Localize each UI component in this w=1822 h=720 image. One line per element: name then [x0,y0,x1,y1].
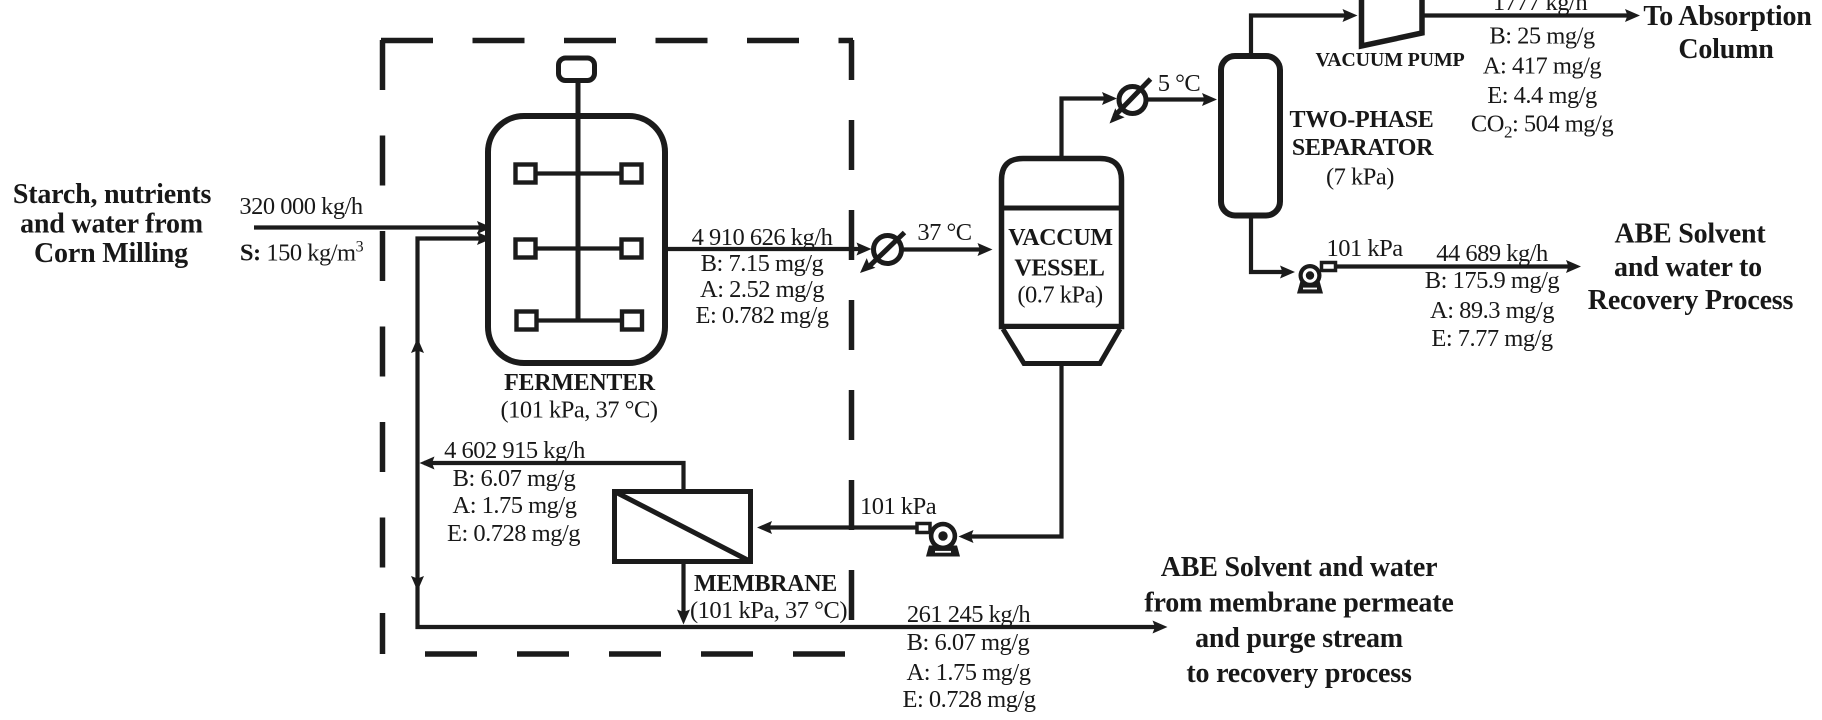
svg-text:4 602 915 kg/h: 4 602 915 kg/h [444,437,585,464]
svg-text:E: 0.728 mg/g: E: 0.728 mg/g [447,520,580,547]
svg-text:and purge stream: and purge stream [1195,623,1403,654]
svg-text:101 kPa: 101 kPa [1326,235,1403,262]
svg-text:(0.7 kPa): (0.7 kPa) [1017,282,1103,309]
svg-text:ABE Solvent and water: ABE Solvent and water [1161,552,1438,583]
svg-text:FERMENTER: FERMENTER [504,370,656,396]
svg-text:B: 6.07 mg/g: B: 6.07 mg/g [453,465,576,492]
svg-text:4 910 626 kg/h: 4 910 626 kg/h [692,224,833,251]
svg-text:TWO-PHASE: TWO-PHASE [1290,107,1434,133]
svg-text:A: 2.52 mg/g: A: 2.52 mg/g [700,276,824,303]
svg-text:B: 6.07 mg/g: B: 6.07 mg/g [907,629,1030,656]
svg-text:and water to: and water to [1614,252,1762,283]
svg-text:B: 7.15 mg/g: B: 7.15 mg/g [701,250,824,277]
svg-text:E: 0.782 mg/g: E: 0.782 mg/g [695,302,828,329]
svg-text:A: 1.75 mg/g: A: 1.75 mg/g [453,492,577,519]
svg-text:VACUUM PUMP: VACUUM PUMP [1315,49,1464,71]
svg-text:(101 kPa, 37 °C): (101 kPa, 37 °C) [501,397,658,424]
svg-text:(101 kPa, 37 °C): (101 kPa, 37 °C) [690,597,847,624]
svg-text:Column: Column [1678,34,1774,65]
svg-text:VACCUM: VACCUM [1008,225,1112,251]
svg-text:37 °C: 37 °C [917,219,971,246]
svg-text:1777 kg/h: 1777 kg/h [1493,0,1587,16]
svg-text:S: 150 kg/m3: S: 150 kg/m3 [240,239,364,267]
svg-text:Corn Milling: Corn Milling [34,238,188,269]
svg-text:VESSEL: VESSEL [1014,256,1104,282]
svg-text:B: 25 mg/g: B: 25 mg/g [1489,23,1595,50]
svg-text:to recovery process: to recovery process [1186,658,1412,689]
svg-text:from membrane permeate: from membrane permeate [1144,588,1453,619]
svg-text:B: 175.9 mg/g: B: 175.9 mg/g [1425,267,1560,294]
svg-text:101 kPa: 101 kPa [860,493,937,520]
svg-text:CO2: 504 mg/g: CO2: 504 mg/g [1471,111,1613,142]
svg-text:MEMBRANE: MEMBRANE [694,571,837,597]
svg-text:SEPARATOR: SEPARATOR [1292,135,1434,161]
svg-text:A: 1.75 mg/g: A: 1.75 mg/g [907,659,1031,686]
svg-text:E: 4.4 mg/g: E: 4.4 mg/g [1487,82,1597,109]
svg-text:5 °C: 5 °C [1158,70,1201,97]
svg-text:and water from: and water from [20,209,203,240]
svg-text:44 689 kg/h: 44 689 kg/h [1436,240,1548,267]
svg-text:A: 417 mg/g: A: 417 mg/g [1483,53,1602,80]
svg-text:(7 kPa): (7 kPa) [1326,164,1394,191]
svg-text:A: 89.3 mg/g: A: 89.3 mg/g [1430,297,1554,324]
svg-text:261 245 kg/h: 261 245 kg/h [907,601,1031,628]
svg-text:320 000 kg/h: 320 000 kg/h [239,193,363,220]
svg-text:To Absorption: To Absorption [1643,1,1812,32]
svg-text:Starch, nutrients: Starch, nutrients [13,179,212,210]
svg-text:ABE Solvent: ABE Solvent [1614,219,1766,250]
svg-text:E: 7.77 mg/g: E: 7.77 mg/g [1431,325,1553,352]
svg-text:E: 0.728 mg/g: E: 0.728 mg/g [902,686,1035,713]
svg-text:Recovery Process: Recovery Process [1588,285,1794,316]
